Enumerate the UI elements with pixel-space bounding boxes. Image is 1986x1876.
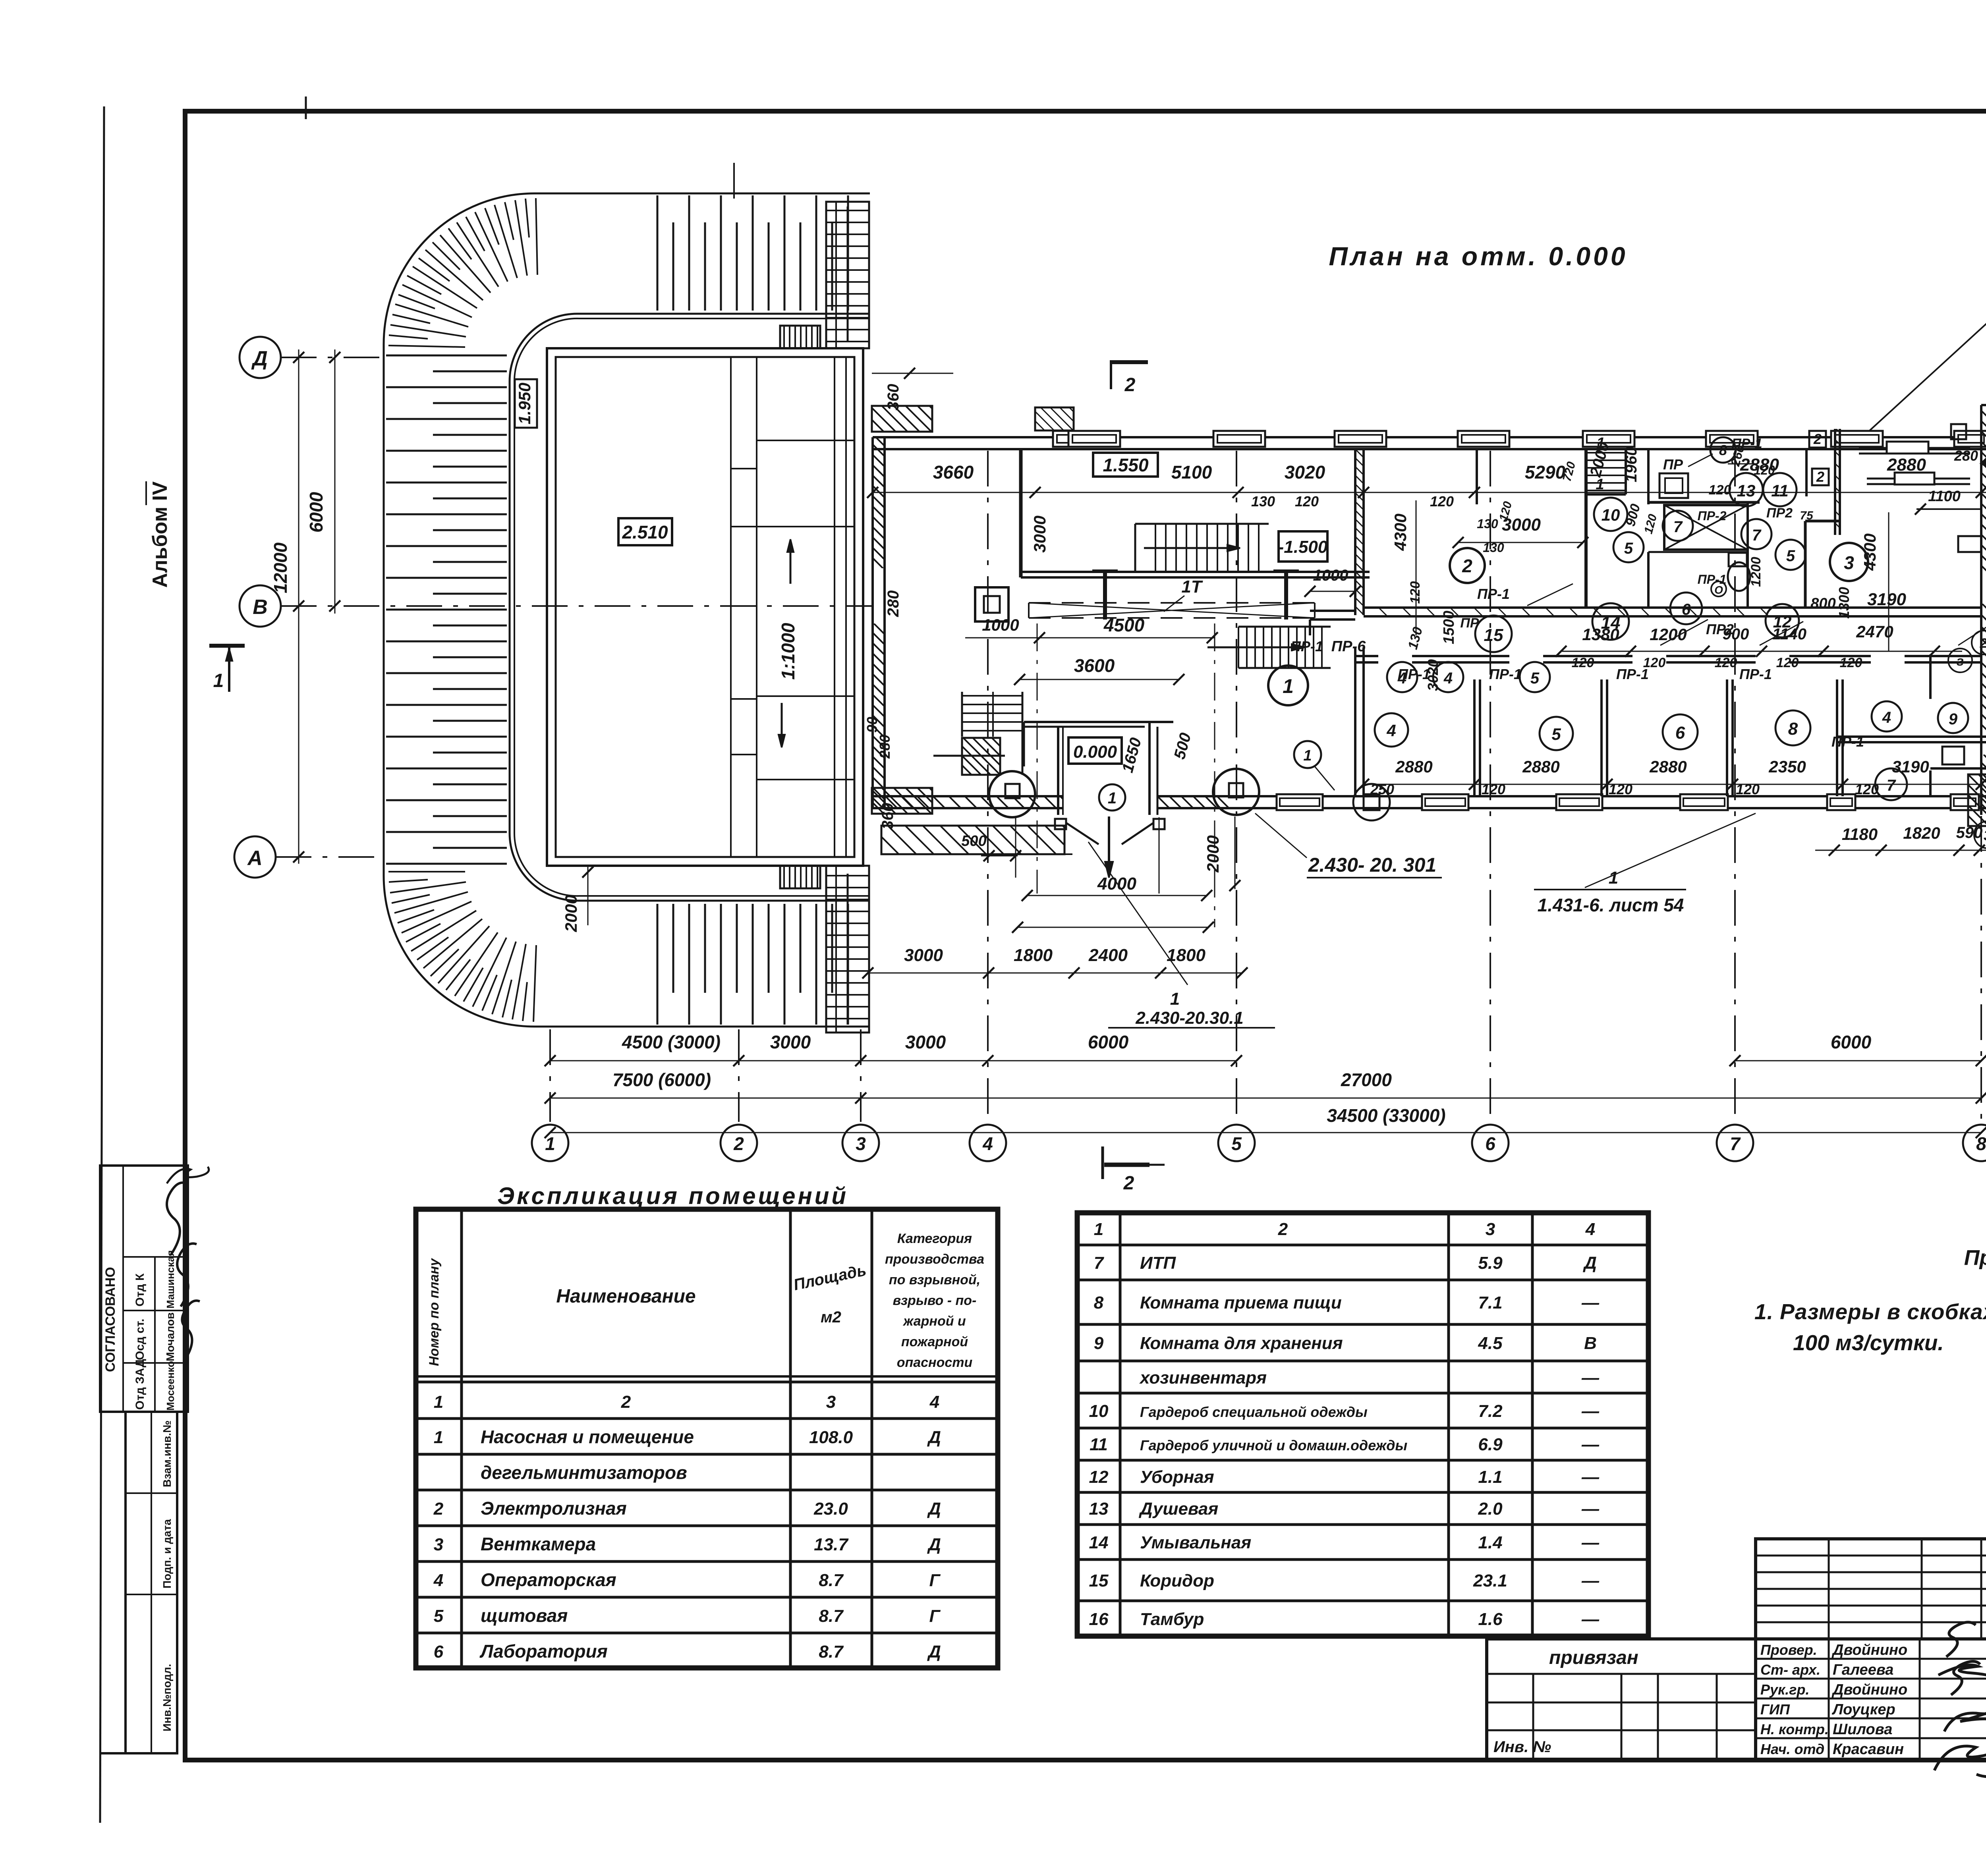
- svg-text:14: 14: [1089, 1533, 1109, 1552]
- svg-text:120: 120: [1482, 781, 1505, 797]
- pool elevation mark 2.510: [618, 518, 672, 545]
- building north wall: [873, 436, 1986, 438]
- svg-text:3000: 3000: [1030, 515, 1049, 552]
- title block privyazan box: [1487, 1639, 1756, 1760]
- svg-text:2.430- 20. 301: 2.430- 20. 301: [1308, 854, 1437, 876]
- svg-text:Рук.гр.: Рук.гр.: [1760, 1681, 1810, 1698]
- svg-text:4500 (3000): 4500 (3000): [622, 1032, 721, 1052]
- svg-text:План на отм. 0.000: План на отм. 0.000: [1329, 241, 1628, 271]
- svg-text:Лоуцкер: Лоуцкер: [1831, 1701, 1895, 1718]
- room circle 8a: [1775, 710, 1810, 745]
- room circle 7a: [1663, 511, 1693, 541]
- left dim 6000: [334, 349, 336, 614]
- room circle 5c: [1540, 717, 1573, 750]
- svg-text:1800: 1800: [1014, 946, 1053, 965]
- pool lane divider c: [834, 357, 835, 857]
- corridor north wall west jog: [1310, 610, 1355, 612]
- building south wall: [873, 795, 1064, 797]
- svg-text:5: 5: [434, 1606, 444, 1626]
- reservoir berm inner ring: [510, 314, 870, 901]
- svg-text:75: 75: [1800, 509, 1814, 522]
- svg-text:1140: 1140: [1772, 625, 1806, 643]
- svg-text:ПР-1: ПР-1: [1477, 586, 1510, 602]
- axis circle 5: [1218, 1125, 1255, 1161]
- svg-text:0.000: 0.000: [1073, 742, 1117, 762]
- room9 closet walls: [1804, 521, 1807, 607]
- hall floor drain square: [975, 587, 1008, 621]
- svg-text:800: 800: [1810, 595, 1835, 612]
- svg-text:1.550: 1.550: [1103, 455, 1149, 475]
- upper interior dimension row: [873, 492, 1986, 493]
- dim 360 with arrow NE: [1980, 462, 1986, 463]
- svg-text:4: 4: [1882, 709, 1891, 726]
- svg-text:щитовая: щитовая: [481, 1605, 568, 1626]
- axis circle 3: [842, 1125, 879, 1161]
- svg-text:3190: 3190: [1867, 590, 1906, 609]
- svg-text:4: 4: [1585, 1220, 1595, 1239]
- svg-text:Подп. и дата: Подп. и дата: [161, 1519, 173, 1588]
- svg-text:130: 130: [1251, 493, 1275, 510]
- dim row 1000 4500: [965, 637, 1215, 639]
- svg-text:Электролизная: Электролизная: [481, 1498, 627, 1519]
- svg-text:1:1000: 1:1000: [778, 623, 798, 680]
- vent shaft walls: [1805, 449, 1808, 496]
- room circle 4d: [1872, 701, 1902, 731]
- left stamp: inv table: [126, 1412, 177, 1753]
- room circle 8b top: [1710, 437, 1736, 463]
- svg-text:108.0: 108.0: [809, 1428, 853, 1447]
- svg-text:2: 2: [1124, 374, 1136, 396]
- right table frame: [1077, 1213, 1648, 1636]
- svg-text:Д: Д: [1582, 1253, 1597, 1273]
- axis 5 line: [1236, 451, 1237, 1122]
- room circle 5b: [1775, 540, 1806, 570]
- dim 2000 porch: [1234, 816, 1236, 889]
- svg-text:1: 1: [1094, 1220, 1103, 1239]
- title block upper mini grid: [1756, 1539, 1986, 1639]
- svg-text:7: 7: [1730, 1133, 1741, 1154]
- svg-text:1100: 1100: [1928, 488, 1961, 505]
- svg-text:15: 15: [1089, 1571, 1109, 1590]
- svg-text:2: 2: [1813, 431, 1822, 447]
- svg-text:590: 590: [1956, 824, 1983, 841]
- svg-text:7.2: 7.2: [1478, 1401, 1503, 1421]
- svg-text:—: —: [1581, 1293, 1600, 1312]
- svg-text:3190: 3190: [1892, 757, 1929, 776]
- svg-text:360: 360: [885, 384, 902, 411]
- axis A line: [276, 856, 384, 858]
- svg-text:7.1: 7.1: [1478, 1293, 1502, 1312]
- svg-text:привязан: привязан: [1549, 1647, 1638, 1668]
- axis 3 line: [860, 1029, 862, 1122]
- svg-text:м2: м2: [821, 1309, 841, 1326]
- svg-text:4: 4: [433, 1571, 443, 1590]
- svg-text:120: 120: [1776, 655, 1799, 670]
- room4/9 cluster walls: [1837, 735, 1986, 738]
- svg-text:34500 (33000): 34500 (33000): [1327, 1105, 1445, 1126]
- room circle 4b: [1433, 662, 1463, 692]
- reservoir small stair top: [780, 326, 820, 348]
- svg-text:27000: 27000: [1341, 1069, 1392, 1090]
- svg-text:Г: Г: [929, 1571, 941, 1590]
- south rooms dim row: [1364, 784, 1981, 785]
- svg-text:Д: Д: [927, 1535, 941, 1554]
- room circle 15: [1475, 616, 1512, 652]
- svg-text:3660: 3660: [933, 462, 974, 483]
- svg-text:2400: 2400: [1088, 946, 1128, 965]
- room circle 10: [1594, 498, 1627, 531]
- svg-text:3000: 3000: [770, 1032, 811, 1052]
- svg-text:ПР: ПР: [1460, 616, 1479, 631]
- pool lane divider b: [756, 357, 757, 857]
- svg-text:Отд ЗАД: Отд ЗАД: [133, 1359, 147, 1410]
- svg-text:Мосеенко: Мосеенко: [164, 1361, 176, 1411]
- sheet outer edge left: [100, 106, 104, 1823]
- svg-text:Номер по плану: Номер по плану: [427, 1258, 442, 1366]
- room circle 6b: [1663, 714, 1698, 749]
- room circle 2c small: [1972, 631, 1986, 654]
- room circle 6a: [1670, 593, 1702, 624]
- svg-text:Двойнино: Двойнино: [1831, 1642, 1907, 1658]
- svg-text:-1.500: -1.500: [1278, 537, 1328, 557]
- pool lane divider d: [845, 357, 847, 857]
- svg-text:Комната приема пищи: Комната приема пищи: [1140, 1293, 1342, 1312]
- svg-text:производства: производства: [885, 1252, 984, 1267]
- embankment hatch bottom-left corner fan: [533, 945, 536, 1022]
- svg-text:Лаборатория: Лаборатория: [479, 1641, 608, 1662]
- axis 4 line: [987, 451, 989, 1122]
- left stamp signatures: [167, 1183, 187, 1255]
- svg-text:7: 7: [1887, 777, 1896, 794]
- svg-text:3: 3: [434, 1535, 443, 1554]
- svg-text:500: 500: [961, 833, 986, 849]
- drain stub line above reservoir: [733, 163, 735, 199]
- svg-text:СОГЛАСОВАНО: СОГЛАСОВАНО: [103, 1267, 118, 1372]
- svg-text:Красавин: Красавин: [1833, 1741, 1904, 1758]
- embankment hatch left band: [386, 355, 507, 357]
- room circle 7c: [1875, 768, 1907, 800]
- dim row A right 6000: [1735, 1060, 1981, 1062]
- title block staff table: [1756, 1639, 1986, 1760]
- svg-text:1: 1: [1108, 789, 1117, 807]
- vertical dim 4300: [1416, 500, 1417, 635]
- svg-text:Д: Д: [251, 347, 268, 370]
- svg-text:ПР-1: ПР-1: [1291, 638, 1323, 654]
- svg-text:1. Размеры в скобках даны для: 1. Размеры в скобках даны для производит…: [1754, 1299, 1986, 1324]
- svg-text:120: 120: [1408, 581, 1423, 604]
- svg-text:2: 2: [1816, 469, 1824, 485]
- small circle O: [1711, 581, 1726, 596]
- axis circle 6: [1472, 1125, 1509, 1161]
- svg-text:120: 120: [1754, 463, 1775, 477]
- svg-text:1200: 1200: [1748, 557, 1764, 587]
- leader label 1.431-6 list 54: [1585, 813, 1756, 888]
- room circle 9: [1938, 703, 1968, 733]
- dim row 3000 1800 2400 1800: [868, 973, 1242, 974]
- svg-text:Д: Д: [927, 1642, 941, 1662]
- svg-text:13: 13: [1089, 1499, 1109, 1519]
- shower room walls: [1746, 502, 1749, 608]
- svg-text:Г: Г: [929, 1606, 941, 1626]
- svg-text:Шилова: Шилова: [1833, 1721, 1892, 1738]
- svg-text:13.7: 13.7: [814, 1535, 849, 1554]
- svg-text:11: 11: [1771, 481, 1789, 500]
- building west wall: [871, 437, 874, 808]
- corridor stair PR-6: [1238, 627, 1239, 668]
- svg-text:ИТП: ИТП: [1140, 1253, 1177, 1273]
- axis circle 4: [970, 1125, 1006, 1161]
- svg-text:1.1: 1.1: [1478, 1467, 1502, 1487]
- svg-text:1: 1: [1170, 989, 1180, 1009]
- room circle g small: [1948, 648, 1972, 672]
- svg-text:1.950: 1.950: [515, 382, 534, 424]
- svg-text:Коридор: Коридор: [1140, 1571, 1214, 1590]
- svg-text:120: 120: [1709, 483, 1731, 498]
- svg-text:ПР2: ПР2: [1706, 621, 1734, 637]
- svg-text:2880: 2880: [1522, 757, 1559, 776]
- svg-text:1: 1: [1303, 747, 1312, 764]
- svg-text:ПР-1: ПР-1: [1698, 572, 1727, 587]
- dim 3000 room2: [1458, 542, 1583, 543]
- svg-text:3000: 3000: [905, 1032, 946, 1052]
- apron hatched strip left of porch: [881, 826, 1064, 854]
- svg-text:ПР-2: ПР-2: [1698, 509, 1727, 523]
- room circle 12: [1766, 604, 1799, 637]
- svg-text:ГИП: ГИП: [1760, 1701, 1790, 1718]
- room circle 4a: [1387, 662, 1417, 692]
- svg-text:1380: 1380: [1582, 625, 1619, 644]
- svg-text:Машинская: Машинская: [164, 1250, 176, 1309]
- svg-text:Операторская: Операторская: [481, 1569, 616, 1590]
- room circle 5d south: [1520, 662, 1550, 692]
- svg-text:Примечание: Примечание: [1964, 1246, 1986, 1270]
- svg-text:Душевая: Душевая: [1138, 1499, 1218, 1519]
- svg-text:5: 5: [1231, 1133, 1242, 1154]
- top frame tick: [305, 97, 307, 119]
- svg-text:1.4: 1.4: [1478, 1533, 1502, 1552]
- southwest interior stair: [961, 692, 963, 737]
- porch extension lines: [1159, 817, 1160, 894]
- svg-text:8: 8: [1788, 719, 1798, 739]
- elevation mark 0.000: [1068, 737, 1122, 764]
- svg-text:3600: 3600: [1074, 655, 1115, 676]
- svg-text:8.7: 8.7: [819, 1642, 844, 1662]
- svg-text:Осд ст.: Осд ст.: [133, 1319, 147, 1360]
- svg-text:1.6: 1.6: [1478, 1610, 1503, 1629]
- svg-text:9: 9: [1094, 1334, 1104, 1353]
- pool inner wall: [556, 357, 854, 857]
- corridor small circles with leaders: [1527, 584, 1573, 606]
- svg-text:2.0: 2.0: [1478, 1499, 1503, 1519]
- leader label 2.430-20.30.1 lower: [1088, 842, 1188, 985]
- svg-text:4: 4: [982, 1133, 993, 1154]
- room circle 5a: [1613, 532, 1644, 562]
- svg-text:4300: 4300: [1391, 513, 1410, 551]
- svg-text:2880: 2880: [1649, 757, 1687, 776]
- svg-text:Насосная и помещение: Насосная и помещение: [481, 1426, 694, 1447]
- svg-text:13: 13: [1737, 481, 1756, 500]
- svg-text:120: 120: [1430, 493, 1454, 510]
- porch axis circle 1: [1099, 784, 1125, 811]
- svg-text:Альбом IV: Альбом IV: [149, 481, 172, 588]
- svg-text:4.5: 4.5: [1478, 1334, 1503, 1353]
- pool lane divider a: [730, 357, 732, 857]
- svg-text:взрыво - по-: взрыво - по-: [893, 1293, 977, 1308]
- stair room main stair: [1155, 524, 1156, 572]
- svg-text:—: —: [1581, 1533, 1600, 1552]
- svg-text:Галеева: Галеева: [1833, 1662, 1893, 1678]
- dim row A 4500-3000-3000-6000: [550, 1060, 1236, 1062]
- svg-text:В: В: [1584, 1334, 1597, 1353]
- svg-text:Инв. №: Инв. №: [1493, 1738, 1551, 1756]
- svg-text:1.431-6. лист 54: 1.431-6. лист 54: [1538, 895, 1684, 915]
- room circle 7b: [1741, 519, 1772, 549]
- svg-text:1Т: 1Т: [1181, 577, 1203, 596]
- svg-text:жарной и: жарной и: [902, 1314, 966, 1329]
- svg-text:8.7: 8.7: [819, 1606, 844, 1626]
- svg-text:4: 4: [929, 1392, 939, 1412]
- svg-text:7: 7: [1673, 518, 1683, 536]
- corridor north wall: [1364, 606, 1981, 609]
- svg-text:120: 120: [1295, 493, 1319, 510]
- svg-text:пожарной: пожарной: [901, 1334, 968, 1349]
- svg-text:2.510: 2.510: [622, 522, 668, 542]
- cluster wall y1265: [1648, 501, 1760, 504]
- svg-text:Экспликация помещений: Экспликация помещений: [497, 1183, 848, 1209]
- room circle 13: [1729, 473, 1763, 506]
- svg-text:12000: 12000: [270, 542, 291, 593]
- svg-text:2880: 2880: [1887, 455, 1926, 475]
- svg-text:—: —: [1581, 1368, 1600, 1388]
- svg-text:6000: 6000: [1831, 1032, 1872, 1052]
- svg-text:Гардероб уличной и домашн.одеж: Гардероб уличной и домашн.одежды: [1140, 1437, 1407, 1453]
- svg-text:—: —: [1581, 1467, 1600, 1487]
- dim 500 porch: [981, 855, 1018, 857]
- svg-text:2880: 2880: [1395, 757, 1432, 776]
- svg-text:1960: 1960: [1623, 447, 1640, 483]
- svg-text:2350: 2350: [1768, 757, 1806, 776]
- svg-text:ПР2: ПР2: [1766, 506, 1793, 521]
- svg-text:ПР-1: ПР-1: [1398, 666, 1430, 682]
- svg-text:2: 2: [621, 1392, 631, 1412]
- svg-text:ПР-1: ПР-1: [1616, 666, 1649, 682]
- svg-text:Тамбур: Тамбур: [1140, 1610, 1204, 1629]
- axis D line: [281, 357, 384, 358]
- svg-text:Д: Д: [927, 1428, 941, 1447]
- svg-text:1000: 1000: [1313, 567, 1348, 584]
- svg-text:10: 10: [1602, 506, 1620, 524]
- axis B circle: [240, 585, 281, 627]
- svg-text:Комната для хранения: Комната для хранения: [1140, 1334, 1343, 1353]
- axis circle 1: [532, 1125, 568, 1161]
- svg-text:4: 4: [1386, 721, 1396, 740]
- svg-text:по взрывной,: по взрывной,: [889, 1272, 980, 1287]
- porch column circle left: [989, 771, 1035, 817]
- svg-text:7: 7: [1094, 1253, 1105, 1273]
- room circle 11: [1763, 473, 1797, 506]
- corridor south wall: [1355, 655, 1981, 657]
- svg-text:А: А: [247, 847, 263, 870]
- room circle 3: [1830, 543, 1868, 581]
- svg-text:8: 8: [1719, 442, 1727, 458]
- svg-text:3: 3: [1486, 1220, 1495, 1239]
- svg-text:1300: 1300: [1836, 587, 1852, 619]
- svg-text:6: 6: [1675, 723, 1685, 743]
- svg-text:15: 15: [1484, 625, 1503, 645]
- east wall pilaster: [1958, 536, 1981, 552]
- svg-text:120: 120: [1855, 781, 1879, 797]
- shower crossed box: [1664, 505, 1748, 550]
- svg-text:2000: 2000: [1204, 835, 1222, 872]
- partition P2 x3430 hatched: [1354, 449, 1356, 615]
- north wall windows: [1053, 431, 1086, 447]
- svg-text:4300: 4300: [1860, 533, 1879, 571]
- axis D circle: [240, 337, 281, 378]
- svg-text:5: 5: [1551, 725, 1561, 743]
- pool outer wall: [547, 348, 863, 866]
- svg-text:280: 280: [1954, 448, 1978, 464]
- svg-text:—: —: [1581, 1401, 1600, 1421]
- svg-text:Венткамера: Венткамера: [481, 1534, 596, 1554]
- svg-text:2: 2: [1278, 1220, 1288, 1239]
- axis B line: [281, 605, 872, 607]
- elevation mark 1.550: [1093, 453, 1158, 477]
- embankment hatch top band: [657, 195, 659, 311]
- reservoir small stair bottom: [780, 866, 820, 888]
- svg-text:Нач. отд: Нач. отд: [1760, 1741, 1824, 1757]
- svg-text:11: 11: [1090, 1435, 1108, 1454]
- porch column circle right: [1213, 769, 1259, 815]
- svg-text:5100: 5100: [1171, 462, 1212, 483]
- berm elevation mark 1.950: [515, 379, 537, 428]
- svg-text:120: 120: [1572, 655, 1594, 670]
- section 2 mark top: [1110, 360, 1112, 389]
- north exterior landing: [1035, 407, 1074, 430]
- bottom frame left extension: [100, 1752, 126, 1754]
- cluster fixtures PR box: [1660, 473, 1688, 498]
- svg-text:опасности: опасности: [897, 1355, 973, 1370]
- svg-text:хозинвентаря: хозинвентаря: [1139, 1368, 1267, 1388]
- svg-text:2: 2: [433, 1499, 444, 1519]
- axis 8 line: [1980, 816, 1982, 1122]
- svg-text:9: 9: [1949, 710, 1958, 728]
- axis 6 line: [1489, 451, 1491, 1122]
- reservoir ladder top-right: [826, 202, 869, 348]
- section 1 mark left: [209, 644, 245, 648]
- room circle 4c: [1375, 713, 1408, 747]
- NE stair block: [1584, 449, 1588, 608]
- svg-text:5: 5: [1624, 540, 1633, 557]
- svg-text:1820: 1820: [1903, 824, 1940, 842]
- svg-text:6: 6: [434, 1642, 444, 1662]
- monorail beam 1T: [1029, 602, 1315, 604]
- svg-text:ПР-1: ПР-1: [1739, 666, 1772, 682]
- svg-text:5: 5: [1786, 547, 1795, 565]
- opening mark circle 1: [1294, 741, 1321, 768]
- svg-text:8: 8: [1976, 1133, 1986, 1154]
- svg-text:Ст- арх.: Ст- арх.: [1760, 1662, 1820, 1678]
- svg-text:Н. контр.: Н. контр.: [1760, 1721, 1829, 1737]
- south rooms partitions: [1473, 679, 1476, 796]
- south wall windows: [1277, 794, 1323, 810]
- svg-text:3: 3: [1984, 827, 1986, 843]
- svg-text:6000: 6000: [1088, 1032, 1129, 1052]
- stair room south wall: [1021, 571, 1370, 573]
- axis 1 line: [549, 1029, 551, 1122]
- dim row C 34500: [550, 1132, 1981, 1133]
- left dim 12000: [298, 349, 299, 864]
- title block signatures: [1946, 1622, 1976, 1657]
